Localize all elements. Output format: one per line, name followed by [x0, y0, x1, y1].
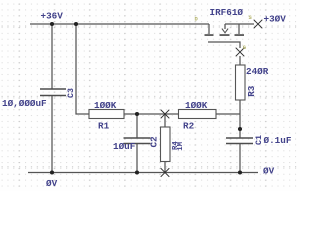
- svg-text:+36V: +36V: [41, 11, 64, 22]
- wire R1 feed vertical: [76, 24, 89, 114]
- gate plate: [208, 42, 240, 48]
- resistor R3: [236, 65, 246, 100]
- svg-text:Ø.1uF: Ø.1uF: [264, 135, 292, 146]
- svg-text:1ØuF: 1ØuF: [113, 141, 136, 152]
- svg-text:1Ø,ØØØuF: 1Ø,ØØØuF: [2, 98, 47, 109]
- wire R1 to R2: [124, 113, 179, 115]
- node dot rail / C3 bottom: [50, 170, 54, 174]
- resistor R1: [89, 110, 124, 119]
- svg-text:1M: 1M: [177, 141, 185, 150]
- svg-text:IRF61Ø: IRF61Ø: [210, 7, 244, 18]
- capacitor C1 plates: [226, 138, 253, 144]
- wire C1 lower lead: [239, 144, 241, 173]
- svg-text:ØV: ØV: [263, 166, 275, 177]
- wire R2 to node B: [216, 113, 240, 115]
- resistor R4: [161, 127, 171, 162]
- svg-text:C3: C3: [67, 88, 76, 98]
- wire C3 column lower: [51, 96, 53, 173]
- svg-text:1ØØK: 1ØØK: [185, 100, 208, 111]
- wire source stub: [238, 24, 240, 34]
- terminal X R4 bottom: [161, 168, 170, 177]
- node dot rail / C2 bottom: [135, 170, 139, 174]
- source contact bar: [235, 34, 245, 36]
- wire C3 column upper: [51, 24, 53, 89]
- resistor R2: [179, 110, 217, 119]
- svg-text:C2: C2: [149, 136, 160, 148]
- bulk stub with arrow: [224, 24, 226, 29]
- node dot A wire / C2: [135, 112, 139, 116]
- wire gate lead to R3: [239, 56, 241, 65]
- svg-text:R3: R3: [246, 85, 257, 97]
- svg-text:1ØØK: 1ØØK: [94, 100, 117, 111]
- svg-text:R1: R1: [98, 120, 110, 131]
- wire top rail +36V: [30, 23, 209, 25]
- wire bottom rail 0V: [28, 172, 258, 174]
- capacitor C2 plates: [124, 138, 151, 144]
- grid background: [0, 0, 300, 191]
- wire source top to +30V: [225, 23, 254, 25]
- node dot B on C1 lead: [238, 127, 242, 131]
- wire C2 upper lead: [136, 114, 138, 138]
- svg-text:R2: R2: [183, 120, 195, 131]
- svg-text:+3ØV: +3ØV: [264, 14, 287, 25]
- node dot rail / C1 bottom: [238, 170, 242, 174]
- terminal X gate: [236, 48, 245, 57]
- terminal X node A (R4 top): [161, 110, 170, 119]
- svg-text:24ØR: 24ØR: [246, 66, 269, 77]
- node dot top rail / C3: [50, 22, 54, 26]
- svg-text:C1: C1: [255, 135, 264, 145]
- wire drain stub: [208, 24, 210, 34]
- node dot top rail / R1 feed: [74, 22, 78, 26]
- bulk contact bar: [220, 34, 230, 36]
- drain contact bar: [205, 34, 214, 36]
- terminal X +30V: [254, 20, 263, 29]
- wire R4 lower lead: [164, 162, 166, 173]
- wire R4 upper lead: [164, 114, 166, 127]
- wire C2 lower lead: [136, 144, 138, 173]
- capacitor C3 plates: [40, 89, 66, 96]
- wire R3 to C1: [239, 100, 241, 138]
- svg-text:ØV: ØV: [46, 178, 58, 189]
- transistor Q1 IRF610: [205, 24, 245, 48]
